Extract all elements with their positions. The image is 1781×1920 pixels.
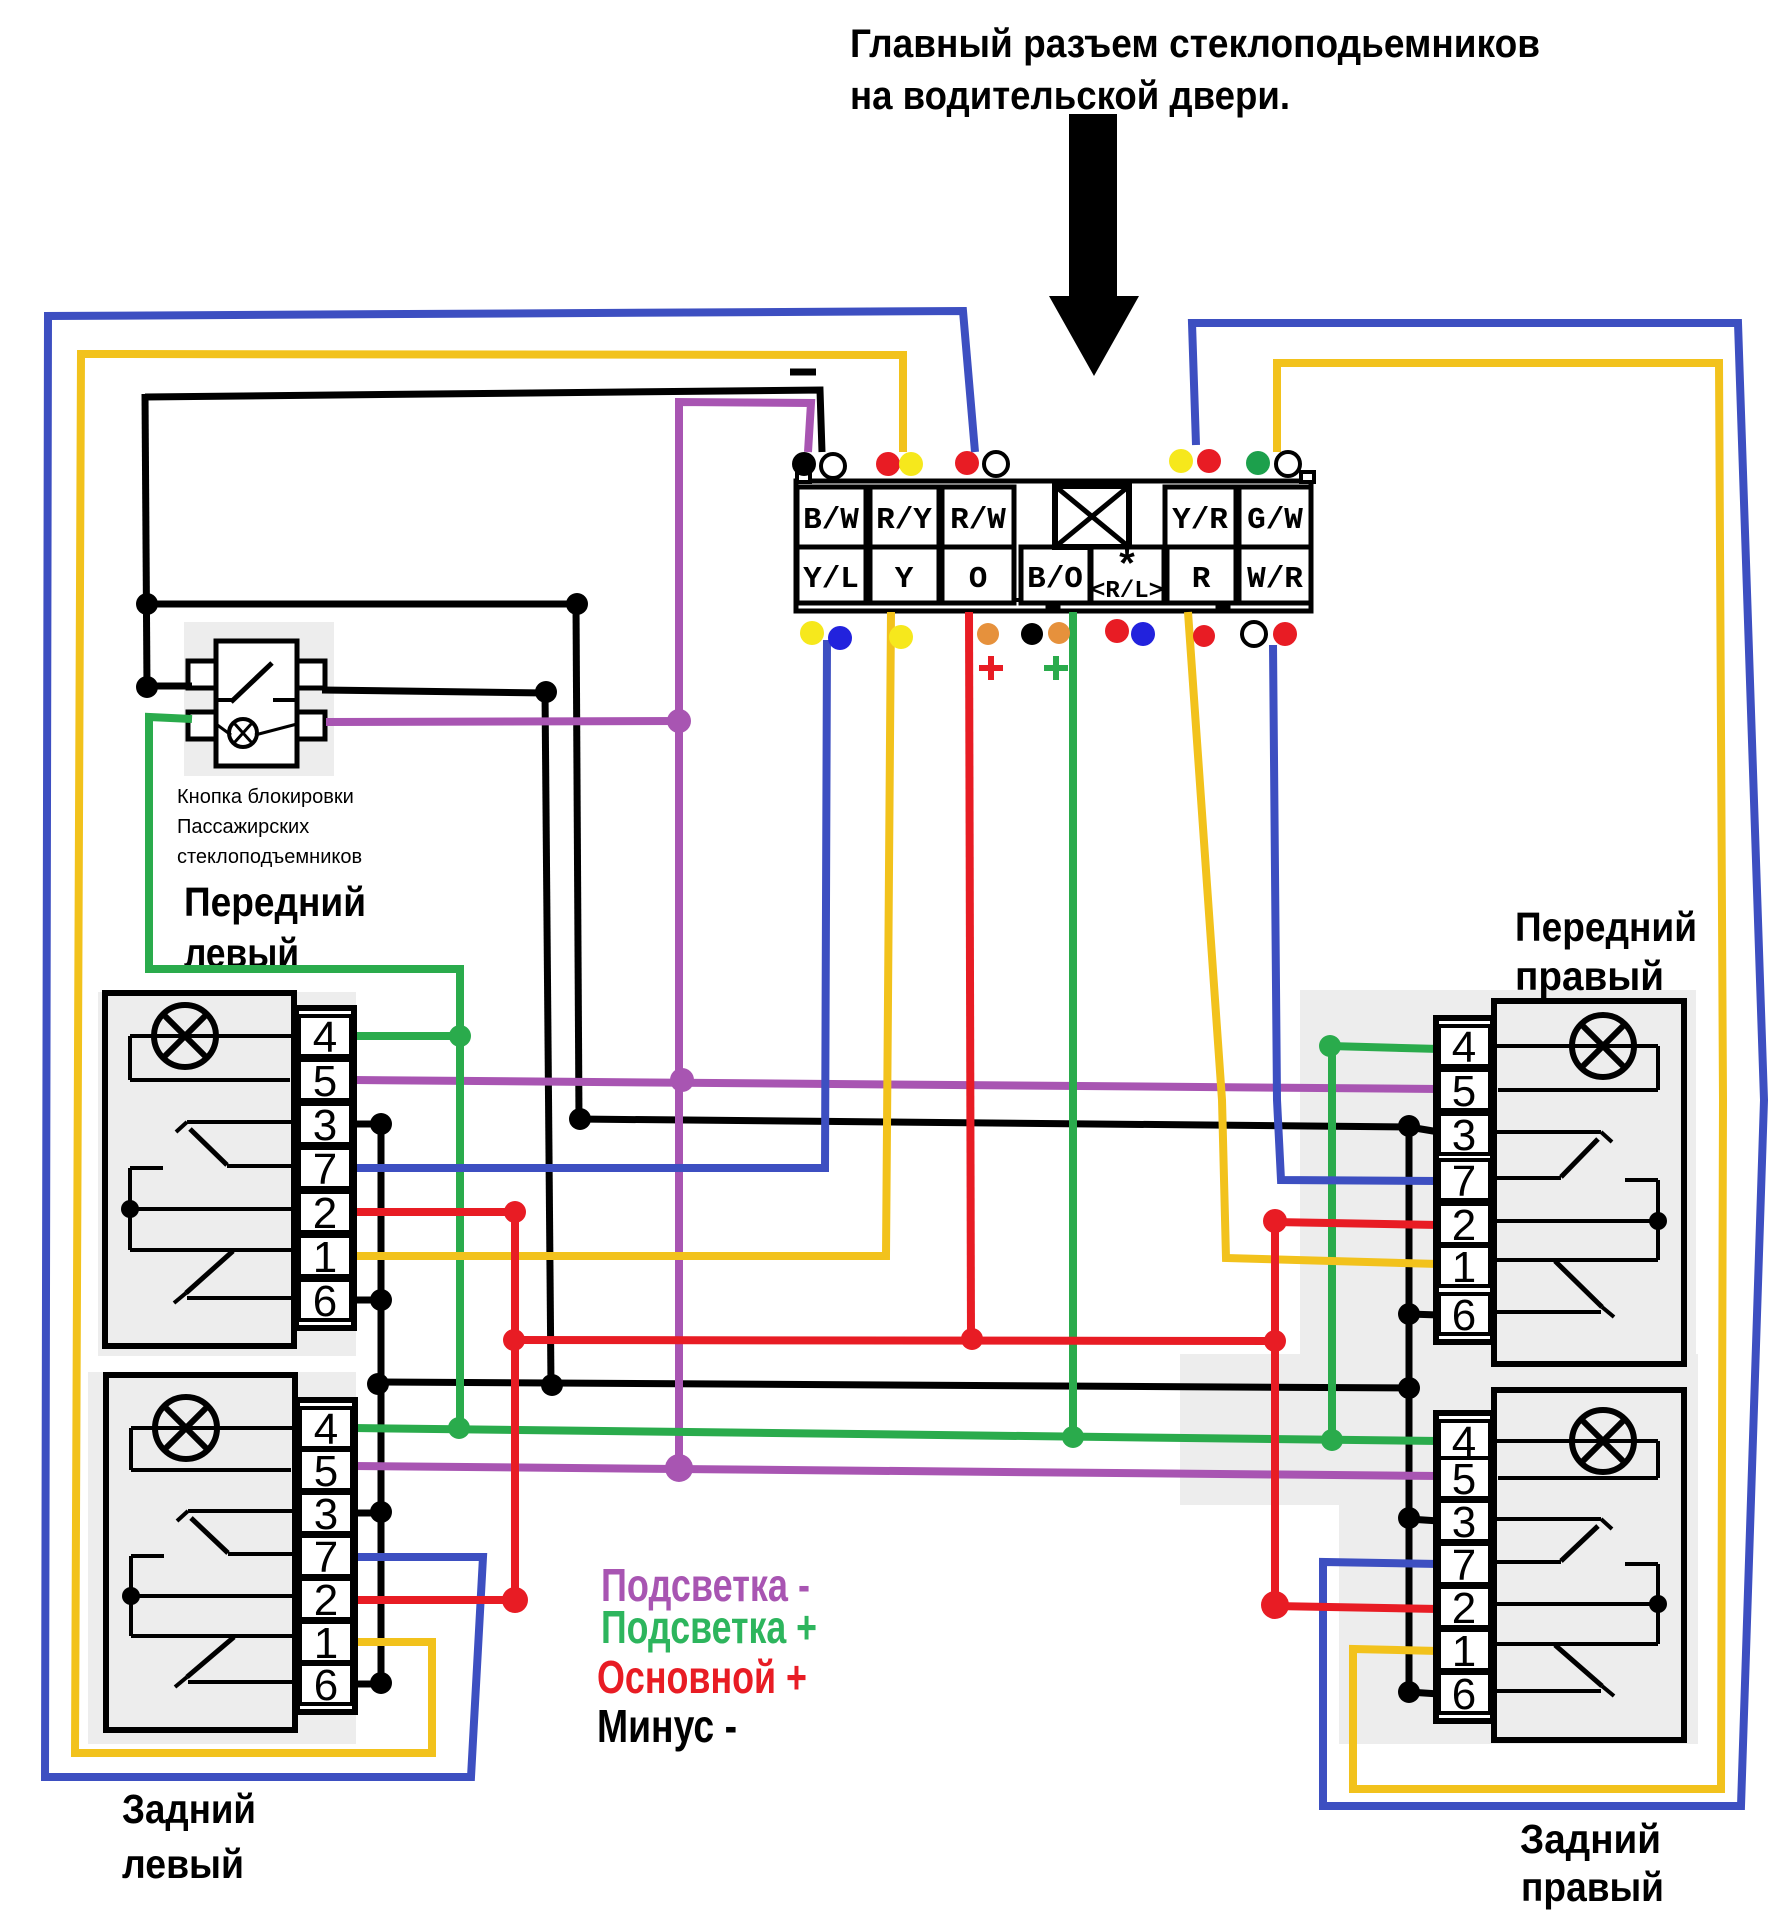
- svg-text:O: O: [969, 562, 988, 597]
- svg-text:Задний: Задний: [1520, 1816, 1661, 1862]
- svg-text:B/O: B/O: [1027, 562, 1083, 597]
- svg-text:6: 6: [1452, 1670, 1476, 1719]
- svg-text:B/W: B/W: [803, 503, 859, 538]
- svg-text:2: 2: [313, 1189, 337, 1238]
- svg-text:1: 1: [1452, 1627, 1476, 1676]
- svg-text:1: 1: [313, 1233, 337, 1282]
- svg-text:Передний: Передний: [184, 879, 366, 925]
- svg-text:4: 4: [313, 1013, 337, 1062]
- svg-text:стеклоподъемников: стеклоподъемников: [177, 846, 362, 868]
- svg-text:на водительской двери.: на водительской двери.: [850, 74, 1290, 118]
- svg-text:6: 6: [1452, 1291, 1476, 1340]
- svg-text:R: R: [1192, 562, 1211, 597]
- svg-text:Минус -: Минус -: [597, 1700, 737, 1752]
- svg-text:W/R: W/R: [1247, 562, 1303, 597]
- svg-text:5: 5: [1452, 1455, 1476, 1504]
- svg-text:правый: правый: [1515, 953, 1664, 999]
- svg-text:1: 1: [1452, 1243, 1476, 1292]
- svg-text:3: 3: [314, 1490, 338, 1539]
- svg-text:3: 3: [313, 1101, 337, 1150]
- svg-text:R/W: R/W: [950, 503, 1006, 538]
- svg-text:3: 3: [1452, 1498, 1476, 1547]
- svg-text:левый: левый: [122, 1841, 244, 1887]
- svg-text:Основной +: Основной +: [597, 1651, 807, 1703]
- svg-text:<R/L>: <R/L>: [1091, 578, 1163, 605]
- svg-text:Главный разъем стеклоподьемни: Главный разъем стеклоподьемников: [850, 22, 1540, 66]
- svg-text:7: 7: [313, 1145, 337, 1194]
- svg-text:5: 5: [314, 1447, 338, 1496]
- svg-text:7: 7: [1452, 1541, 1476, 1590]
- svg-text:правый: правый: [1521, 1864, 1664, 1910]
- svg-text:Задний: Задний: [122, 1786, 256, 1832]
- svg-text:5: 5: [1452, 1067, 1476, 1116]
- svg-text:2: 2: [314, 1576, 338, 1625]
- svg-text:Y/R: Y/R: [1172, 503, 1228, 538]
- svg-text:7: 7: [1452, 1157, 1476, 1206]
- svg-text:Кнопка блокировки: Кнопка блокировки: [177, 786, 354, 808]
- svg-text:6: 6: [313, 1277, 337, 1326]
- svg-text:R/Y: R/Y: [876, 503, 932, 538]
- svg-text:2: 2: [1452, 1584, 1476, 1633]
- svg-text:Пассажирских: Пассажирских: [177, 816, 309, 838]
- svg-text:Передний: Передний: [1515, 904, 1697, 950]
- svg-text:Y: Y: [895, 562, 914, 597]
- svg-text:Y/L: Y/L: [803, 562, 859, 597]
- svg-text:6: 6: [314, 1661, 338, 1710]
- svg-text:5: 5: [313, 1057, 337, 1106]
- svg-text:7: 7: [314, 1533, 338, 1582]
- svg-text:4: 4: [1452, 1023, 1476, 1072]
- svg-text:G/W: G/W: [1247, 503, 1303, 538]
- svg-text:3: 3: [1452, 1111, 1476, 1160]
- svg-text:Подсветка +: Подсветка +: [601, 1601, 817, 1653]
